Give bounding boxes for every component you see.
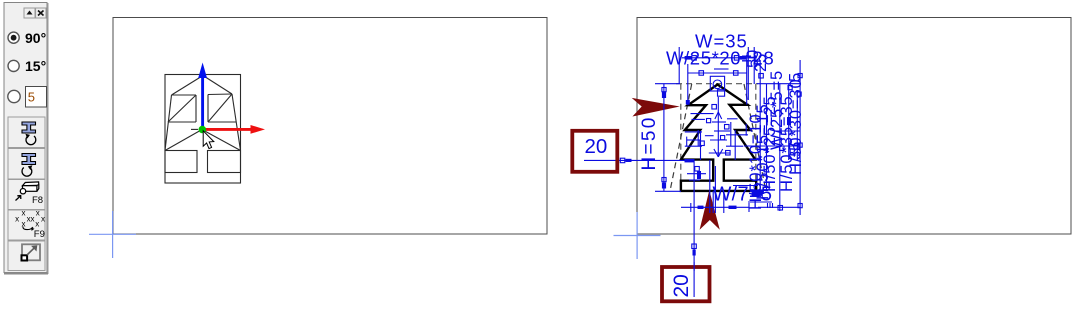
top extension lines [678, 47, 680, 84]
svg-text:5: 5 [787, 73, 805, 82]
right canvas origin cross [614, 212, 661, 259]
toolbar panel [4, 3, 48, 275]
svg-text:F8: F8 [32, 195, 43, 206]
button rotate cw [8, 149, 45, 180]
svg-text:H=50: H=50 [639, 115, 660, 170]
left quad diagonal [168, 95, 196, 122]
right column short ticks [775, 130, 800, 132]
apex right line [203, 76, 232, 95]
svg-text:35: 35 [787, 142, 805, 160]
right canvas frame [637, 18, 1071, 235]
toolbar minimize button [24, 8, 35, 18]
small line above apex [714, 68, 729, 70]
X axis red arrow [203, 125, 265, 134]
dashed sheared outline left [670, 84, 692, 191]
mid clutter verticals [697, 130, 699, 146]
left 20 label box [572, 131, 617, 172]
right quad diagonal [208, 94, 232, 122]
left canvas frame [113, 18, 547, 235]
button copy F9 [8, 209, 45, 240]
fir tree outline [681, 85, 756, 191]
mid clutter horizontals [691, 113, 714, 115]
radio 15 [8, 58, 46, 74]
svg-text:50: 50 [744, 50, 762, 68]
svg-text:90°: 90° [25, 30, 46, 46]
H=50 dimension line [663, 84, 665, 191]
button scale [8, 241, 45, 271]
radio 90 (selected) [8, 30, 46, 46]
bottom dimension line [681, 206, 749, 208]
left canvas origin cross [89, 211, 136, 258]
bottom pick arrow (maroon) [700, 190, 720, 230]
bottom 20 label box [662, 262, 710, 301]
button rotate ccw [8, 117, 45, 148]
left slant edge [165, 95, 172, 151]
trunk extension lines [712, 191, 714, 213]
blue solid markers [626, 56, 792, 256]
Y axis blue arrow [198, 63, 207, 130]
left quad top [172, 94, 197, 96]
button move F8 [8, 180, 45, 210]
svg-text:x: x [15, 214, 19, 223]
left quad right side [195, 95, 197, 122]
dashed bounding box of tree [676, 84, 758, 191]
left pick arrow (maroon) [632, 98, 680, 117]
apex level extension to H dim [655, 83, 680, 85]
base level extension [655, 190, 681, 192]
apex marker rect [710, 76, 724, 91]
lower left diagonal [165, 130, 202, 151]
blue open square markers [620, 56, 802, 249]
radio custom angle [8, 90, 20, 102]
right column verticals [759, 60, 761, 195]
outer rectangle [165, 75, 241, 184]
blue dimension texts [639, 31, 805, 211]
svg-text:20: 20 [670, 274, 693, 297]
svg-text:x: x [35, 220, 39, 229]
svg-text:x: x [31, 214, 35, 223]
left drawing: distorted tree wireframe [165, 75, 241, 184]
central vertical dim with arrows [717, 97, 719, 157]
svg-text:15°: 15° [25, 58, 46, 74]
origin tick [191, 128, 198, 130]
bottom right rectangle [208, 151, 241, 173]
right quad left side [207, 95, 209, 123]
toolbar close button [36, 8, 46, 18]
right quad top [208, 93, 232, 96]
W=35 dimension line [682, 57, 757, 59]
apex left line [172, 76, 204, 96]
leader to bottom 20 box [693, 160, 695, 297]
bottom left rectangle [165, 151, 197, 173]
svg-text:F9: F9 [34, 229, 45, 240]
apex marker small rect [718, 90, 725, 97]
svg-text:5: 5 [28, 90, 35, 105]
angle input field value 5 [26, 87, 47, 108]
svg-text:20: 20 [585, 135, 608, 158]
svg-text:x: x [22, 209, 26, 218]
W/25*20=28 dimension line [688, 72, 747, 74]
apex marker circle [713, 80, 722, 89]
left quad bottom [168, 121, 196, 123]
svg-text:x: x [36, 209, 40, 218]
origin green dot [199, 126, 207, 134]
dashed sheared outline right [744, 84, 766, 191]
right slant edge [232, 94, 241, 151]
blue dimension graphics [584, 47, 800, 297]
lower right diagonal [202, 130, 241, 151]
leader from left 20 box [584, 159, 694, 161]
svg-text:x: x [41, 214, 45, 223]
mouse cursor [203, 131, 214, 149]
right quad bottom [208, 121, 236, 123]
